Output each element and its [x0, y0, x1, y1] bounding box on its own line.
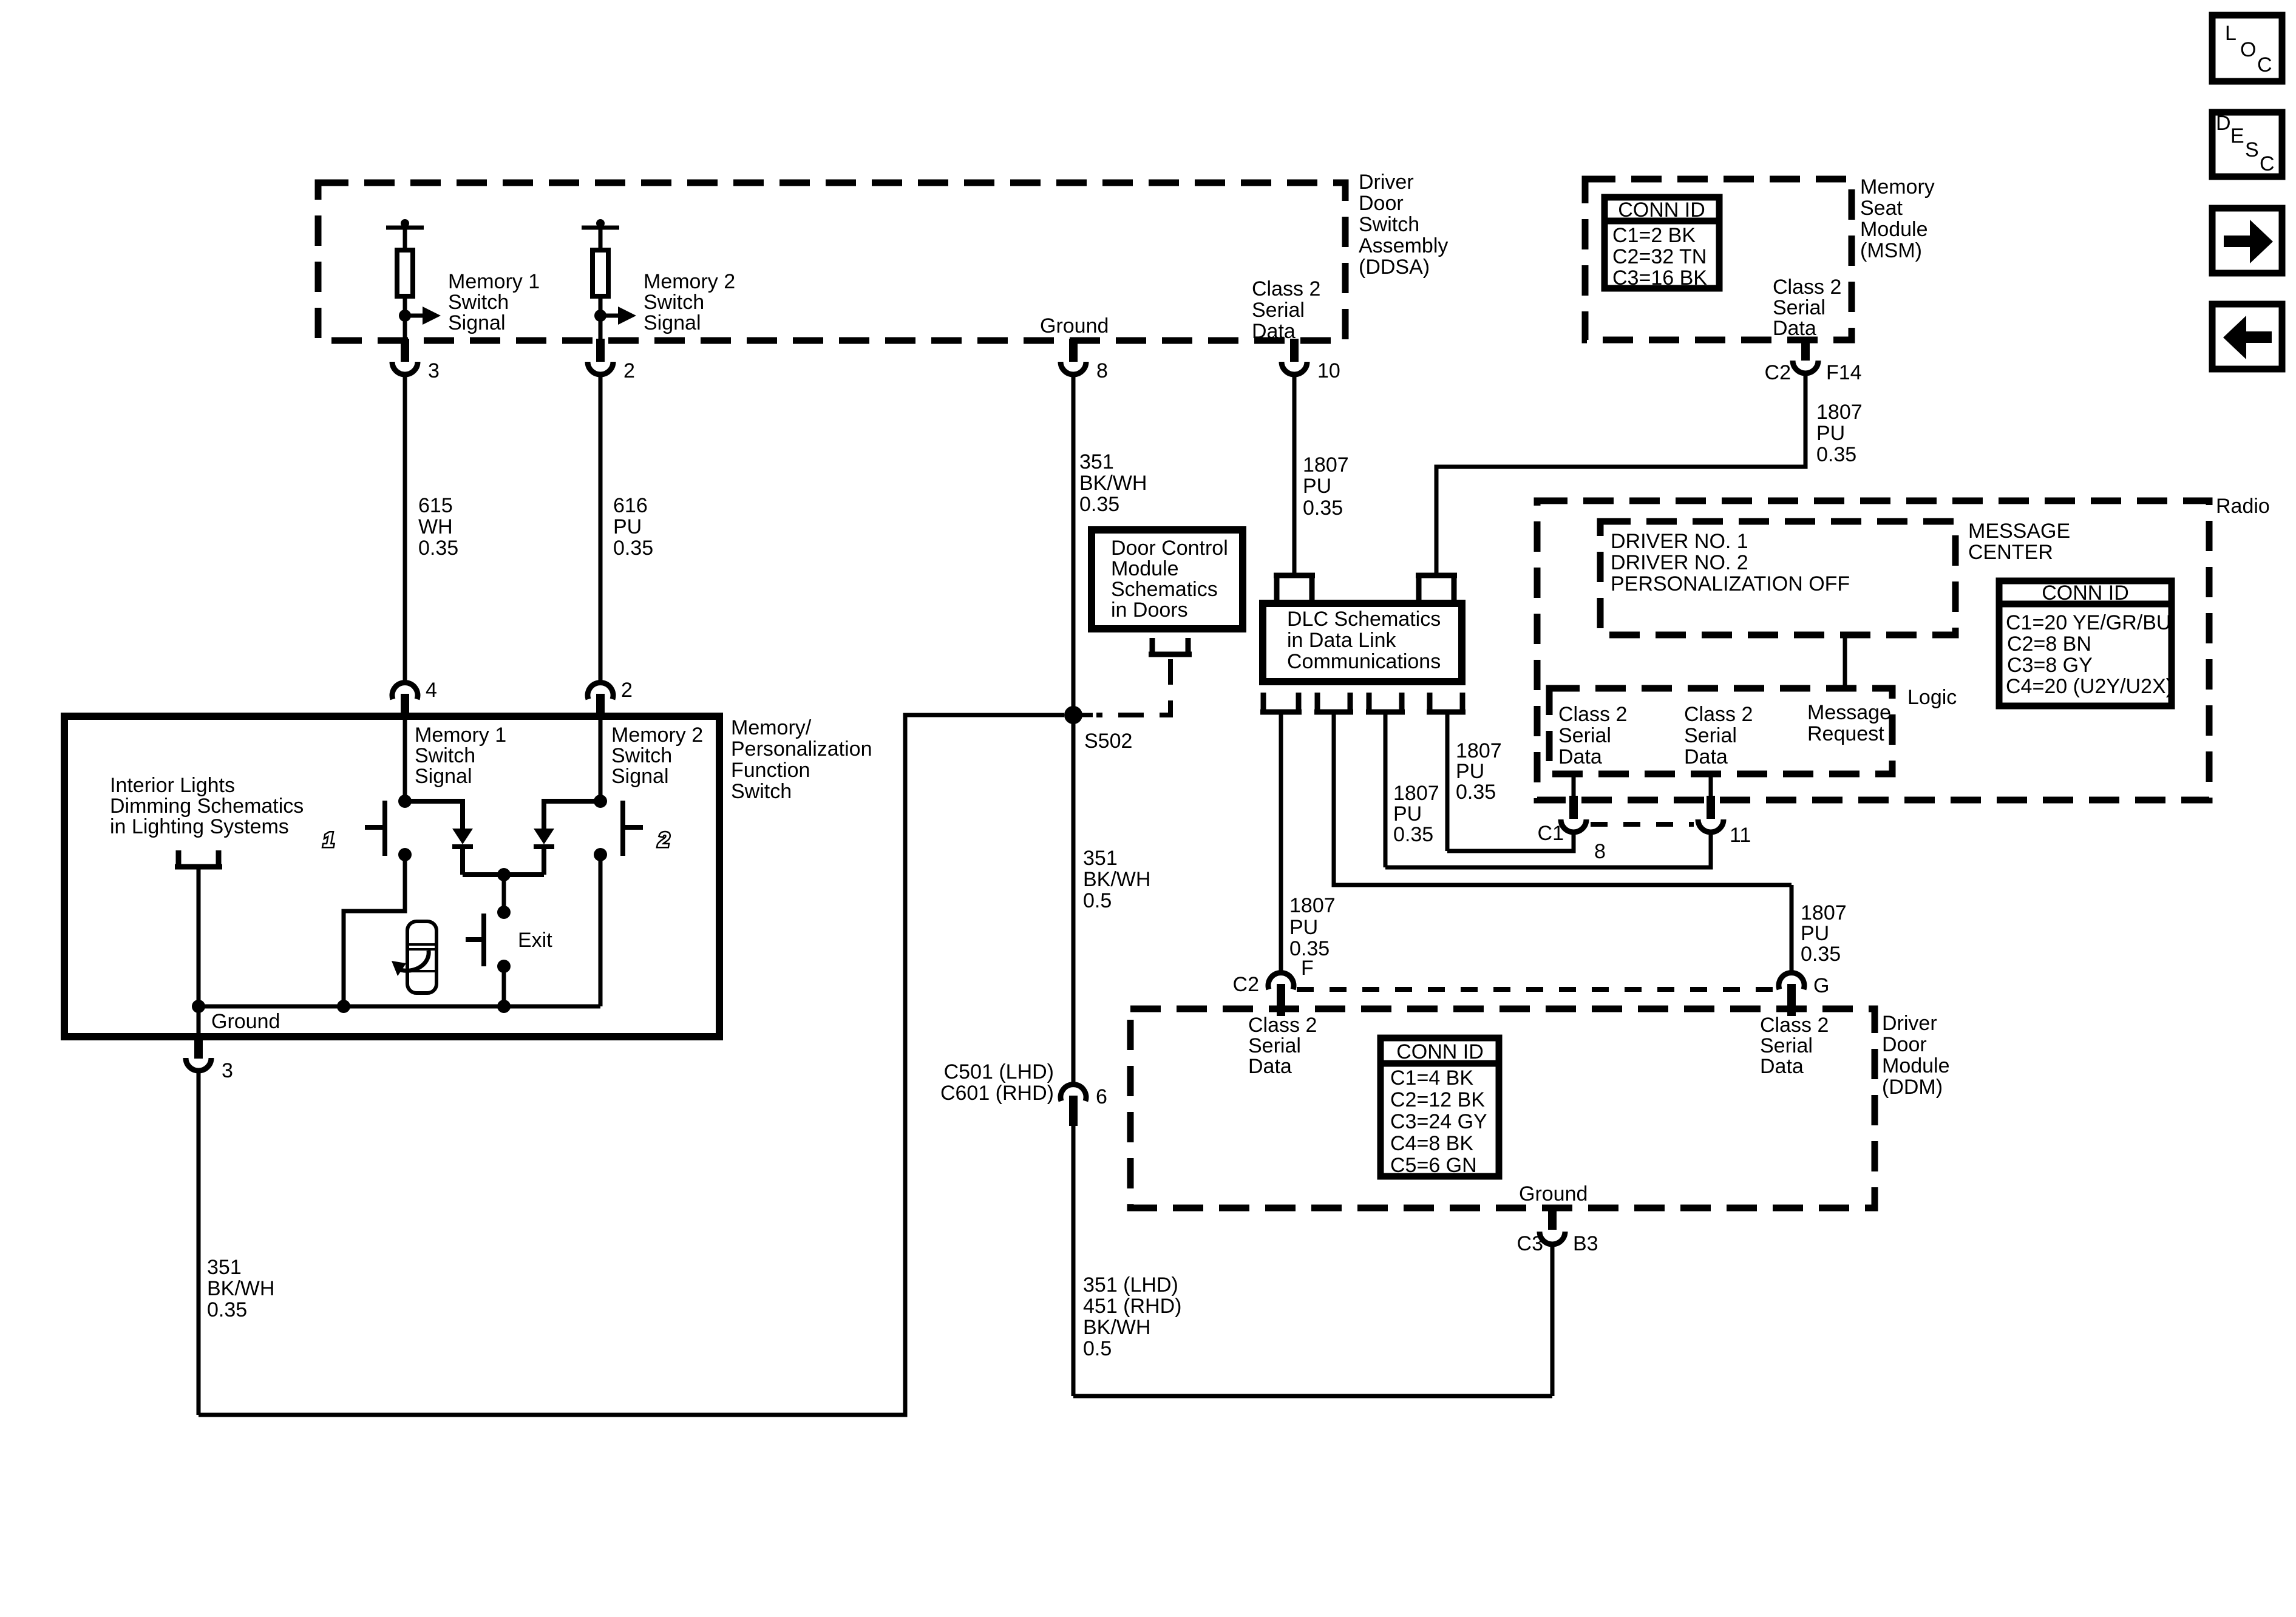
svg-text:PU: PU: [1289, 916, 1318, 939]
svg-text:Switch: Switch: [448, 291, 509, 314]
svg-text:Data: Data: [1558, 745, 1602, 768]
Interior Lights label: [110, 774, 304, 838]
dotted line F to G: [1297, 987, 1776, 992]
svg-text:Memory/: Memory/: [731, 716, 812, 739]
svg-text:Signal: Signal: [448, 311, 506, 334]
wire DLC tab3 down (to pin 11): [1384, 714, 1388, 867]
Memory 1 signal arrow: [399, 307, 441, 325]
DLC bottom tab 1: [1260, 693, 1302, 712]
diode D1: [452, 829, 473, 875]
right-arrow navigation icon box: [2212, 208, 2282, 273]
svg-text:in Data Link: in Data Link: [1287, 629, 1397, 652]
svg-text:(DDSA): (DDSA): [1359, 256, 1430, 279]
node switch2 bottom: [594, 848, 607, 861]
dotted line pin 8 to pin 11: [1591, 822, 1694, 827]
Door Control Module Schematics box: [1092, 530, 1243, 629]
svg-text:0.35: 0.35: [1456, 781, 1496, 804]
svg-text:Module: Module: [1882, 1054, 1950, 1077]
svg-text:Request: Request: [1807, 722, 1884, 745]
svg-text:0.35: 0.35: [207, 1298, 247, 1321]
DDM label: [1882, 1012, 1950, 1099]
svg-text:1807: 1807: [1303, 453, 1349, 476]
wire label 615 WH 0.35: [418, 494, 458, 560]
svg-text:Interior Lights: Interior Lights: [110, 774, 235, 797]
node exit top: [497, 906, 511, 919]
node switch1 bottom: [398, 848, 412, 861]
DDM pin G connector: [1779, 973, 1829, 1016]
svg-text:CONN ID: CONN ID: [2042, 581, 2129, 605]
svg-text:C2=8 BN: C2=8 BN: [2007, 632, 2091, 656]
svg-text:Switch: Switch: [644, 291, 704, 314]
svg-text:1807: 1807: [1393, 782, 1439, 805]
Class 2 Serial Data label (MSM): [1773, 276, 1841, 340]
svg-text:BK/WH: BK/WH: [1079, 472, 1147, 495]
wire label 351 BK/WH 0.5 (below S502): [1083, 847, 1150, 912]
svg-text:Ground: Ground: [1040, 314, 1109, 337]
Memory 1 Switch Signal label (inside box): [415, 724, 506, 788]
svg-text:F: F: [1301, 957, 1314, 980]
svg-text:C4=20 (U2Y/U2X): C4=20 (U2Y/U2X): [2006, 675, 2173, 698]
car door icon: [392, 921, 436, 993]
svg-text:C3: C3: [1517, 1232, 1543, 1255]
svg-text:616: 616: [613, 494, 648, 517]
exit switch: [466, 914, 552, 966]
svg-text:351: 351: [1083, 847, 1118, 870]
svg-text:C601 (RHD): C601 (RHD): [940, 1082, 1054, 1105]
svg-text:Communications: Communications: [1287, 650, 1441, 673]
LOC navigation icon box: [2212, 15, 2282, 81]
resistor R-Memory2 inside DDSA: [582, 219, 619, 341]
svg-text:(DDM): (DDM): [1882, 1076, 1943, 1099]
off-page bracket (interior lights): [175, 850, 222, 867]
svg-text:C1: C1: [1538, 822, 1564, 845]
svg-text:0.5: 0.5: [1083, 1337, 1112, 1360]
svg-text:PU: PU: [1816, 422, 1845, 445]
svg-text:Class 2: Class 2: [1773, 276, 1841, 299]
wire label 1807 PU 0.35: [1303, 453, 1349, 520]
Memory 2 Switch Signal label (inside box): [611, 724, 703, 788]
MSM CONN ID table: [1605, 197, 1719, 290]
svg-text:351: 351: [207, 1256, 242, 1279]
svg-text:Switch: Switch: [611, 744, 672, 767]
Memory Seat Module (MSM) dashed box: [1585, 179, 1852, 340]
svg-text:Module: Module: [1860, 218, 1928, 241]
svg-text:C3=24 GY: C3=24 GY: [1390, 1110, 1487, 1133]
wire label 351 BK/WH 0.35: [1079, 450, 1147, 516]
Memory 2 Switch Signal label: [644, 270, 735, 334]
svg-text:CONN ID: CONN ID: [1618, 198, 1705, 222]
svg-text:Driver: Driver: [1882, 1012, 1937, 1035]
svg-text:Data: Data: [1773, 317, 1816, 340]
svg-text:0.35: 0.35: [418, 537, 458, 560]
svg-text:G: G: [1813, 974, 1829, 997]
Class 2 Serial Data label (DDM pin G): [1760, 1014, 1829, 1078]
svg-text:8: 8: [1594, 840, 1606, 863]
wire DLC tab2 to DDM pin G: [1334, 714, 1792, 885]
svg-text:CENTER: CENTER: [1968, 541, 2053, 564]
svg-text:C3=8 GY: C3=8 GY: [2007, 654, 2093, 677]
svg-text:0.35: 0.35: [1079, 493, 1119, 516]
splice S502: [1064, 706, 1132, 753]
wire DLC tab1 down to DDM pin F: [1279, 714, 1283, 972]
wire down to G: [1790, 885, 1794, 972]
wire ground to pin 3: [197, 1006, 201, 1034]
resistor R-Memory1 inside DDSA: [386, 219, 424, 341]
svg-text:0.35: 0.35: [1816, 443, 1856, 466]
svg-text:B3: B3: [1573, 1232, 1598, 1255]
DDSA pin 10 connector: [1282, 339, 1340, 382]
wire 351 BK/WH pin3 down: [197, 1073, 201, 1415]
Logic dashed box: [1549, 688, 1892, 774]
svg-text:1807: 1807: [1801, 901, 1847, 924]
svg-text:0.5: 0.5: [1083, 889, 1112, 912]
svg-text:L: L: [2225, 22, 2237, 45]
svg-text:in Doors: in Doors: [1111, 598, 1188, 622]
Class 2 Serial Data label (Radio 11): [1684, 703, 1753, 768]
wire C501 down: [1072, 1126, 1076, 1396]
wire switch1 to ground line: [344, 855, 405, 1006]
DDM pin C3 B3 connector: [1517, 1207, 1598, 1255]
svg-text:451 (RHD): 451 (RHD): [1083, 1295, 1181, 1318]
svg-text:Assembly: Assembly: [1359, 234, 1448, 257]
diode D2: [534, 829, 554, 875]
svg-text:Signal: Signal: [415, 765, 472, 788]
wire switch2 to ground line: [599, 855, 603, 1006]
Memory/Personalization Function Switch box: [64, 716, 719, 1037]
wire label 1807 PU 0.35 (F wire): [1289, 894, 1336, 960]
DDSA pin 3 connector: [392, 339, 440, 382]
switch 2 (memory 2 pushbutton): [623, 801, 643, 856]
wire pin 4 into switch 1: [403, 720, 407, 801]
svg-text:2: 2: [657, 829, 670, 852]
wire label 351 BK/WH 0.35 (bottom left): [207, 1256, 274, 1321]
Driver Door Switch Assembly (DDSA) dashed box: [318, 183, 1345, 341]
DESC navigation icon box: [2212, 112, 2282, 177]
node switch2 top: [594, 795, 607, 808]
Radio pin C1 8 connector: [1538, 774, 1606, 863]
off-page bracket below Door Control Module box: [1149, 638, 1192, 654]
svg-text:PU: PU: [613, 515, 642, 538]
node ground-switch1: [337, 1000, 350, 1013]
wire label 1807 PU 0.35 (tab4): [1456, 739, 1502, 804]
svg-text:Module: Module: [1111, 557, 1179, 580]
DLC top tab 2: [1416, 575, 1457, 600]
svg-text:Switch: Switch: [1359, 213, 1419, 236]
svg-text:Serial: Serial: [1684, 724, 1737, 747]
wire message center to logic: [1843, 635, 1847, 688]
svg-text:1807: 1807: [1289, 894, 1336, 917]
Memory box pin 3 connector: [186, 1034, 233, 1082]
svg-text:E: E: [2230, 124, 2244, 147]
switch 1 (memory 1 pushbutton): [365, 801, 385, 856]
Memory 2 signal arrow: [594, 307, 636, 325]
svg-text:Data: Data: [1760, 1055, 1804, 1078]
svg-text:1807: 1807: [1456, 739, 1502, 762]
svg-text:Class 2: Class 2: [1558, 703, 1627, 726]
svg-text:Message: Message: [1807, 701, 1891, 724]
DLC Schematics box: [1263, 603, 1462, 682]
svg-text:BK/WH: BK/WH: [1083, 1316, 1150, 1339]
svg-text:C: C: [2260, 152, 2275, 175]
wire label 616 PU 0.35: [613, 494, 653, 560]
wire 1807 PU (pin 10 down to DLC): [1292, 375, 1297, 578]
svg-text:Memory: Memory: [1860, 175, 1935, 198]
svg-text:351: 351: [1079, 450, 1114, 473]
Driver Door Module (DDM) dashed box: [1130, 1009, 1875, 1208]
wire 615 WH (pin 3 to pin 4): [403, 375, 407, 684]
svg-text:CONN ID: CONN ID: [1396, 1040, 1484, 1063]
wire pin 8 to DLC tab4: [1447, 835, 1574, 851]
Class 2 Serial Data label (DDSA pin 10): [1252, 277, 1320, 343]
svg-text:WH: WH: [418, 515, 453, 538]
svg-text:0.35: 0.35: [1303, 497, 1343, 520]
svg-text:1: 1: [323, 829, 335, 852]
svg-text:Serial: Serial: [1252, 299, 1305, 322]
svg-text:C: C: [2257, 53, 2272, 76]
left-arrow navigation icon box: [2212, 304, 2282, 369]
Message Request label: [1807, 701, 1891, 745]
Radio dashed box: [1537, 501, 2209, 800]
DDM pin C2 F connector: [1233, 957, 1314, 1016]
svg-text:6: 6: [1096, 1085, 1107, 1108]
Memory 1 Switch Signal label: [448, 270, 540, 334]
svg-text:2: 2: [621, 679, 633, 702]
wire pin 11 to DLC tab3: [1385, 835, 1711, 867]
svg-text:D: D: [2216, 112, 2231, 135]
svg-text:10: 10: [1317, 359, 1340, 382]
svg-text:Ground: Ground: [1519, 1182, 1588, 1205]
Memory switch pin 2 connector: [588, 679, 633, 719]
long ground return wire to S502 branch: [199, 715, 1064, 1415]
wire pin 2 into switch 2: [599, 720, 603, 801]
svg-text:Data: Data: [1252, 320, 1296, 343]
svg-text:Class 2: Class 2: [1760, 1014, 1829, 1037]
svg-text:C1=4 BK: C1=4 BK: [1390, 1066, 1473, 1090]
wire 351 BK/WH (pin 8 down to C501): [1072, 375, 1076, 1085]
svg-text:Radio: Radio: [2216, 495, 2270, 518]
svg-text:Signal: Signal: [644, 311, 701, 334]
wire 616 PU (pin 2 to pin 2 of switch): [599, 375, 603, 684]
svg-text:Door: Door: [1359, 192, 1404, 215]
DDSA label: [1359, 171, 1448, 279]
MESSAGE CENTER dashed box: [1600, 521, 1955, 635]
svg-text:8: 8: [1096, 359, 1108, 382]
wire label 1807 PU 0.35 (tab3): [1393, 782, 1439, 846]
wire DLC tab4 down (to pin C1-8): [1445, 714, 1450, 851]
DLC bottom tab 4: [1427, 693, 1466, 712]
svg-text:Data: Data: [1684, 745, 1728, 768]
svg-text:BK/WH: BK/WH: [207, 1277, 274, 1300]
svg-text:Seat: Seat: [1860, 197, 1903, 220]
svg-text:(MSM): (MSM): [1860, 239, 1922, 262]
svg-text:BK/WH: BK/WH: [1083, 868, 1150, 891]
svg-text:C1=20 YE/GR/BU: C1=20 YE/GR/BU: [2006, 611, 2171, 634]
svg-text:Logic: Logic: [1907, 686, 1957, 709]
svg-text:Driver: Driver: [1359, 171, 1414, 194]
DDSA pin 8 connector: [1061, 339, 1108, 382]
svg-text:Class 2: Class 2: [1252, 277, 1320, 300]
svg-text:1807: 1807: [1816, 401, 1863, 424]
svg-text:Class 2: Class 2: [1684, 703, 1753, 726]
node ground-bracket: [192, 1000, 205, 1013]
svg-text:4: 4: [426, 679, 437, 702]
wire 1807 PU from F14 to DLC: [1436, 376, 1805, 578]
svg-text:C5=6 GN: C5=6 GN: [1390, 1154, 1477, 1177]
svg-text:2: 2: [623, 359, 635, 382]
svg-text:Serial: Serial: [1760, 1034, 1813, 1057]
Class 2 Serial Data label (Radio C1-8): [1558, 703, 1627, 768]
svg-text:F14: F14: [1826, 361, 1862, 384]
svg-text:Personalization: Personalization: [731, 737, 872, 761]
wire to exit switch: [502, 875, 506, 912]
svg-text:Function: Function: [731, 759, 810, 782]
Memory switch pin 4 connector: [392, 679, 437, 719]
svg-text:DRIVER NO. 2: DRIVER NO. 2: [1611, 551, 1748, 574]
svg-text:C2: C2: [1765, 361, 1791, 384]
svg-text:Memory 2: Memory 2: [611, 724, 703, 747]
MSM pin C2 F14 connector: [1765, 337, 1862, 384]
Class 2 Serial Data label (DDM pin F): [1248, 1014, 1317, 1078]
svg-text:0.35: 0.35: [613, 537, 653, 560]
svg-text:Serial: Serial: [1248, 1034, 1301, 1057]
wire label 1807 PU 0.35 (F14): [1816, 401, 1863, 466]
DLC top tab 1: [1274, 575, 1315, 600]
svg-text:Dimming Schematics: Dimming Schematics: [110, 795, 304, 818]
wire exit to ground line: [502, 966, 506, 1006]
svg-text:Door Control: Door Control: [1111, 537, 1228, 560]
svg-text:PU: PU: [1801, 922, 1829, 945]
DDM CONN ID table: [1381, 1038, 1499, 1177]
Radio pin 11 connector: [1698, 774, 1751, 847]
DLC bottom tab 2: [1314, 693, 1353, 712]
svg-text:C1=2 BK: C1=2 BK: [1612, 224, 1696, 247]
svg-text:PU: PU: [1393, 802, 1422, 825]
node ground-exit: [497, 1000, 511, 1013]
svg-text:C4=8 BK: C4=8 BK: [1390, 1132, 1473, 1155]
svg-text:DRIVER NO. 1: DRIVER NO. 1: [1611, 530, 1748, 553]
Radio CONN ID table: [1999, 581, 2173, 706]
Memory/Personalization Function Switch label: [731, 716, 872, 803]
message center display text: [1611, 530, 1850, 595]
node exit bottom: [497, 960, 511, 973]
MESSAGE CENTER label: [1968, 520, 2070, 564]
svg-text:Memory 1: Memory 1: [415, 724, 506, 747]
svg-text:Serial: Serial: [1773, 296, 1826, 319]
svg-text:0.35: 0.35: [1801, 943, 1841, 966]
svg-text:PERSONALIZATION OFF: PERSONALIZATION OFF: [1611, 572, 1850, 595]
svg-text:351 (LHD): 351 (LHD): [1083, 1273, 1178, 1297]
svg-text:S: S: [2245, 138, 2259, 161]
svg-text:Ground: Ground: [211, 1010, 280, 1033]
svg-text:PU: PU: [1456, 760, 1484, 783]
svg-text:3: 3: [222, 1059, 233, 1082]
bottom ground wire to DDM C3: [1073, 1394, 1552, 1398]
svg-text:Class 2: Class 2: [1248, 1014, 1317, 1037]
svg-text:C501 (LHD): C501 (LHD): [944, 1060, 1054, 1083]
svg-text:DLC Schematics: DLC Schematics: [1287, 608, 1441, 631]
MSM label: [1860, 175, 1935, 262]
svg-text:O: O: [2240, 38, 2256, 61]
svg-text:Schematics: Schematics: [1111, 578, 1218, 601]
wire label 1807 PU 0.35 (G wire): [1801, 901, 1847, 966]
svg-text:C2: C2: [1233, 973, 1259, 996]
svg-text:C2=12 BK: C2=12 BK: [1390, 1088, 1485, 1111]
svg-text:11: 11: [1730, 824, 1751, 847]
dashed leader to S502: [1073, 713, 1093, 717]
svg-text:PU: PU: [1303, 475, 1331, 498]
svg-text:0.35: 0.35: [1393, 823, 1433, 846]
wire C3-B3 down: [1550, 1247, 1555, 1396]
svg-text:S502: S502: [1084, 730, 1132, 753]
svg-text:in Lighting Systems: in Lighting Systems: [110, 815, 289, 838]
svg-text:Memory 2: Memory 2: [644, 270, 735, 293]
svg-text:615: 615: [418, 494, 453, 517]
svg-text:MESSAGE: MESSAGE: [1968, 520, 2070, 543]
wire bracket to ground line: [197, 869, 201, 1006]
svg-text:Signal: Signal: [611, 765, 669, 788]
svg-text:3: 3: [428, 359, 440, 382]
svg-text:C3=16 BK: C3=16 BK: [1612, 266, 1707, 290]
svg-text:Data: Data: [1248, 1055, 1292, 1078]
internal ground bus: [199, 1005, 600, 1009]
svg-text:Serial: Serial: [1558, 724, 1611, 747]
inline connector C501/C601 pin 6: [940, 1060, 1107, 1126]
svg-text:C2=32 TN: C2=32 TN: [1612, 245, 1707, 268]
svg-text:Switch: Switch: [415, 744, 475, 767]
node switch1 top: [398, 795, 412, 808]
diode junction wire: [463, 872, 544, 877]
wire to diode 1: [405, 801, 463, 829]
svg-text:Exit: Exit: [518, 929, 552, 952]
svg-text:Memory 1: Memory 1: [448, 270, 540, 293]
wire label 351(LHD) 451(RHD) BK/WH 0.5: [1083, 1273, 1181, 1360]
node diode junction: [497, 868, 511, 881]
wire to diode 2: [544, 801, 600, 829]
svg-text:Switch: Switch: [731, 780, 792, 803]
DDSA pin 2 connector: [588, 339, 635, 382]
DLC bottom tab 3: [1366, 693, 1405, 712]
svg-text:Door: Door: [1882, 1033, 1927, 1056]
